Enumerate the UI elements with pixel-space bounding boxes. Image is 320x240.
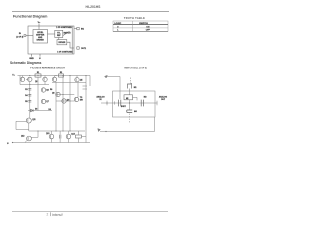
switch arm <box>63 31 70 35</box>
transistor Q4 <box>52 77 56 81</box>
wire horizontal y101 <box>56 100 74 102</box>
svg-text:Q2: Q2 <box>35 81 37 83</box>
svg-text:D3: D3 <box>35 109 37 111</box>
svg-text:V-: V- <box>7 143 9 145</box>
wire driver to terminal <box>67 42 74 48</box>
transistor Q5 <box>75 78 79 82</box>
wire box to V- rail <box>100 117 155 132</box>
control wire <box>106 77 120 100</box>
svg-text:intersil: intersil <box>52 213 63 217</box>
footer divider bar <box>49 212 52 216</box>
svg-text:DRIVER: DRIVER <box>59 42 66 44</box>
svg-text:LOGIC: LOGIC <box>114 23 121 25</box>
transistor Q6 <box>41 88 45 92</box>
wire well to M3 <box>133 97 138 100</box>
transistor Q3 <box>43 77 47 81</box>
wire vertical x56 <box>55 82 57 131</box>
svg-text:V+: V+ <box>12 74 15 76</box>
svg-text:ON: ON <box>146 26 150 28</box>
mosfet M1 body <box>128 83 132 89</box>
V- rail <box>12 142 90 144</box>
logic input terminal <box>24 35 26 37</box>
svg-text:IN: IN <box>100 99 103 101</box>
footer rule <box>12 211 168 213</box>
analog out terminal tick <box>156 101 158 106</box>
gate dashes M1 <box>130 78 132 84</box>
wire stub q3 <box>44 82 46 85</box>
svg-text:SWITCH CELL (1 OF 4): SWITCH CELL (1 OF 4) <box>124 67 147 70</box>
header rule <box>12 11 169 13</box>
wire vertical x63 <box>62 76 64 132</box>
svg-text:OFF: OFF <box>146 30 151 32</box>
svg-text:OUT: OUT <box>161 99 166 101</box>
svg-text:(1 OF 4): (1 OF 4) <box>16 35 23 38</box>
transistor Q12 <box>27 136 32 141</box>
svg-text:R1: R1 <box>37 72 39 74</box>
wire stub q2 base <box>26 78 28 80</box>
svg-text:R4: R4 <box>25 94 27 97</box>
junction dot bus center <box>129 102 130 103</box>
comparator box <box>55 30 63 37</box>
wire horizontal y94 <box>56 94 74 96</box>
resistor R1 <box>35 74 41 77</box>
gate dashes M4 <box>129 114 131 123</box>
svg-text:Q14: Q14 <box>71 133 74 136</box>
svg-text:Q9: Q9 <box>67 99 69 101</box>
svg-text:R6: R6 <box>50 89 52 91</box>
svg-text:TRUTH TABLE: TRUTH TABLE <box>124 16 145 20</box>
svg-text:R5: R5 <box>25 101 27 103</box>
wire stub rail to Q1 <box>22 76 24 78</box>
right edge stubs <box>83 86 88 89</box>
svg-text:V+: V+ <box>38 22 41 24</box>
svg-text:Q11: Q11 <box>32 119 35 121</box>
svg-text:OUT1: OUT1 <box>81 48 86 50</box>
resistor R3 ticks <box>28 88 31 102</box>
transistor Q13 <box>49 134 54 139</box>
junction dot v- wire <box>105 131 106 132</box>
svg-text:R2: R2 <box>60 72 62 74</box>
resistor R4 <box>76 135 82 138</box>
outer box of switch IC <box>28 26 74 54</box>
transistor Q11 <box>26 118 31 123</box>
junction dots top rail <box>29 75 30 76</box>
bottom border accent <box>113 30 168 32</box>
wire comparator to driver <box>58 38 60 40</box>
svg-text:Q8: Q8 <box>52 92 54 94</box>
wire vertical x30 <box>29 82 31 118</box>
wire Q12 emitter <box>25 140 27 142</box>
top right terminal square <box>77 27 79 29</box>
column divider <box>132 21 134 31</box>
wire stub q1 <box>19 76 21 85</box>
bus tick <box>114 101 116 104</box>
svg-text:Q12: Q12 <box>21 135 24 137</box>
V+ pin stub <box>38 24 40 30</box>
svg-text:Q6: Q6 <box>46 89 48 91</box>
svg-text:SW: SW <box>80 100 83 102</box>
svg-text:1 OF 4 SWITCHES: 1 OF 4 SWITCHES <box>56 26 72 29</box>
svg-text:Functional Diagram: Functional Diagram <box>13 15 48 19</box>
center vertical wire <box>129 100 131 110</box>
svg-text:SWITCH: SWITCH <box>63 32 71 34</box>
mosfet M2 <box>119 100 121 107</box>
M1 source into box <box>129 89 131 96</box>
svg-text:REF: REF <box>57 35 61 37</box>
wire vertical x38 <box>37 77 39 110</box>
transistor Q2 <box>28 77 32 81</box>
wire vertical into y131 <box>28 123 30 131</box>
svg-text:Q13: Q13 <box>46 133 49 135</box>
wire horizontal y131 <box>29 130 85 132</box>
V- arrow <box>98 129 101 132</box>
row separator <box>113 27 168 29</box>
mosfet M4 <box>127 110 132 112</box>
bottom right terminal square <box>77 47 79 49</box>
diode D2 <box>59 135 61 139</box>
svg-text:M1: M1 <box>134 87 137 89</box>
switch cell box <box>113 91 156 117</box>
analog bus wire <box>101 102 158 104</box>
transistor Q10 <box>74 97 78 101</box>
svg-text:BODY: BODY <box>121 106 127 108</box>
wire input to level shifter <box>26 35 33 37</box>
driver box <box>57 40 67 45</box>
well box <box>124 95 133 100</box>
svg-text:Q7: Q7 <box>46 101 48 103</box>
inner right edge double line <box>71 26 73 54</box>
svg-text:M3: M3 <box>144 97 147 99</box>
diode D1 <box>30 109 33 112</box>
junction dots middle <box>29 84 30 85</box>
wire stubs bottom row <box>52 131 87 143</box>
svg-text:DRIVER: DRIVER <box>37 39 45 41</box>
svg-text:TTL/CMOS REFERENCE CIRCUIT: TTL/CMOS REFERENCE CIRCUIT <box>30 68 65 70</box>
GND pin stub <box>31 54 33 57</box>
svg-text:2: 2 <box>47 213 49 217</box>
control input arrow <box>105 75 108 78</box>
top right terminal wire <box>74 28 77 30</box>
svg-text:Q5: Q5 <box>80 80 82 82</box>
wire vertical x70 <box>69 76 71 132</box>
header separator <box>113 24 168 26</box>
wire Q12 to x38 riser <box>31 131 38 137</box>
junction dot bus left <box>106 102 107 103</box>
level shifter box <box>33 30 48 44</box>
transistor Q1 <box>20 77 24 81</box>
wire level shifter to comparator <box>48 33 55 35</box>
V+ rail <box>18 76 91 87</box>
transistor Q7 <box>41 99 45 103</box>
wire vertical x78 <box>77 83 79 98</box>
analog in terminal tick <box>106 101 108 106</box>
svg-text:1 OF 4 SWITCHES: 1 OF 4 SWITCHES <box>57 51 73 54</box>
wire horizontal y110 diode row <box>28 110 52 112</box>
transistor Q14 <box>66 134 71 139</box>
svg-text:IN1: IN1 <box>81 29 84 31</box>
junction dots bottom <box>12 142 13 143</box>
base bus right <box>52 82 86 84</box>
svg-text:HI-201HS: HI-201HS <box>86 5 102 9</box>
svg-text:Schematic Diagrams: Schematic Diagrams <box>10 61 42 65</box>
svg-text:SWITCH: SWITCH <box>139 23 148 25</box>
mosfet M3 <box>141 100 143 107</box>
wire vertical x86 <box>85 76 87 143</box>
transistor Q8 <box>56 92 60 96</box>
table border <box>113 21 168 31</box>
svg-text:D4: D4 <box>49 108 51 111</box>
svg-text:M4: M4 <box>134 110 138 113</box>
feedback loop wire <box>16 121 29 129</box>
svg-text:IN: IN <box>19 33 22 35</box>
transistor Q9 <box>62 99 66 103</box>
base bus left <box>20 84 49 86</box>
resistor R2 <box>59 74 64 77</box>
V- pin stub <box>39 54 41 57</box>
svg-text:R3: R3 <box>25 89 27 91</box>
svg-text:M2: M2 <box>126 98 128 100</box>
